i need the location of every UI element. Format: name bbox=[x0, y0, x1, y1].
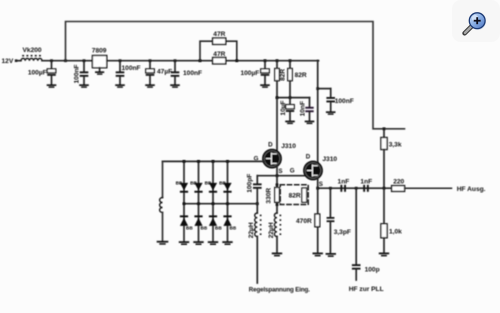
resistor R 1,0k bbox=[381, 188, 402, 252]
capacitor C 47uF electrolytic bbox=[146, 61, 172, 85]
ground (100nF #2) bbox=[115, 84, 125, 88]
svg-text:82R: 82R bbox=[295, 72, 307, 79]
capacitor C 100nF (fourth) bbox=[326, 89, 353, 112]
svg-text:330R: 330R bbox=[266, 188, 273, 204]
svg-text:D: D bbox=[306, 153, 311, 160]
wire decoupling node horizontal bbox=[277, 97, 310, 99]
capacitor C 100uF (input electrolytic) bbox=[28, 61, 56, 85]
wire JFET1 source down to S-node bbox=[276, 165, 278, 176]
capacitor C 100nF (rotated label) bbox=[73, 61, 88, 85]
node junction 100p/output bbox=[355, 187, 358, 190]
capacitor C 100pF (coupling, rotated label) bbox=[246, 174, 261, 204]
diode D varactor BB top 2 bbox=[190, 181, 203, 193]
node junction divider/top-bypass bbox=[383, 127, 386, 130]
resistor R 82R (left, drain feed) rotated label bbox=[275, 61, 287, 98]
node junction 3.3pF/output bbox=[329, 187, 332, 190]
ground (47uF) bbox=[145, 84, 155, 88]
svg-text:100nF: 100nF bbox=[73, 64, 80, 83]
diode D varactor BB top 1 bbox=[176, 181, 189, 193]
svg-text:1,0k: 1,0k bbox=[389, 228, 402, 235]
diode D varactor BB bottom 1 bbox=[180, 215, 193, 230]
svg-text:J310: J310 bbox=[281, 143, 296, 150]
svg-text:3,3pF: 3,3pF bbox=[334, 229, 351, 236]
capacitor C 10uF electrolytic (rotated label) bbox=[280, 98, 294, 121]
wire 12V to inductor bbox=[16, 60, 21, 62]
ground (100uF #2) bbox=[260, 84, 270, 88]
wire branch to 100nF4 bbox=[318, 88, 331, 90]
ground (10nF) bbox=[305, 121, 315, 125]
wire S-node horizontal (to gate of Q2 and 100pF) bbox=[257, 175, 306, 177]
resistor R 82R (right) bbox=[288, 61, 307, 98]
node junction 82R1/decoupling bbox=[276, 96, 279, 99]
node junction tuning line / 100pF bbox=[256, 202, 259, 205]
capacitor C 100p (to PLL) bbox=[352, 188, 380, 280]
node junction branch 4 / resonator top bbox=[226, 160, 229, 163]
ground (100nF #1) bbox=[79, 84, 89, 88]
svg-text:BB: BB bbox=[201, 226, 208, 231]
svg-text:100nF: 100nF bbox=[122, 65, 141, 72]
svg-text:100µF: 100µF bbox=[28, 70, 47, 77]
svg-text:100pF: 100pF bbox=[246, 174, 253, 193]
capacitor C 100nF (after 7809) bbox=[116, 61, 141, 85]
svg-text:220: 220 bbox=[393, 179, 404, 186]
ground (varactor branch 4) bbox=[222, 241, 232, 245]
diode D varactor BB bottom 4 bbox=[223, 215, 236, 230]
svg-text:470R: 470R bbox=[296, 218, 312, 225]
resistor R 47R (top of loop) bbox=[213, 31, 226, 44]
wire output to HF Ausg. bbox=[405, 187, 452, 189]
node junction branch 3 / resonator top bbox=[212, 160, 215, 163]
node junction rail/47uF bbox=[149, 59, 152, 62]
inductor Vk200 bbox=[21, 47, 42, 61]
svg-text:1nF: 1nF bbox=[338, 178, 350, 185]
svg-text:100nF: 100nF bbox=[335, 98, 354, 105]
diode D varactor BB top 4 bbox=[219, 181, 232, 193]
node junction rail/82R2 bbox=[289, 59, 292, 62]
resistor R 82R optional (dashed box) bbox=[280, 185, 308, 205]
regulator U 7809 bbox=[92, 47, 107, 71]
transistor Q2 J310 bbox=[290, 153, 338, 188]
ground (varactor branch 1) bbox=[179, 241, 189, 245]
node junction branch 3 / tuning line bbox=[212, 202, 215, 205]
ground (input 100uF) bbox=[47, 84, 57, 88]
svg-text:J310: J310 bbox=[322, 156, 337, 163]
ground (470R) bbox=[313, 253, 323, 257]
svg-text:100µF: 100µF bbox=[240, 70, 259, 77]
resistor R 330R (source bias, rotated label) bbox=[266, 176, 280, 213]
wire JFET2 source down to output line bbox=[317, 178, 319, 188]
node junction rail/100nF3 bbox=[174, 59, 177, 62]
node junction branch 2 / tuning line bbox=[197, 202, 200, 205]
node junction divider/output bbox=[383, 187, 386, 190]
wire varactor branch 4 bbox=[227, 161, 229, 241]
wire 47R parallel loop bbox=[200, 41, 237, 61]
node junction rail/47R loop left bbox=[199, 59, 202, 62]
capacitor C 3,3pF bbox=[327, 188, 351, 253]
svg-text:47µF: 47µF bbox=[157, 69, 172, 76]
inductor L 22uH (left, tuning feed) bbox=[248, 204, 262, 283]
wire V+ vertical to JFET2 drain bbox=[317, 61, 319, 163]
ground (1,0k) bbox=[379, 253, 389, 257]
svg-text:7809: 7809 bbox=[92, 47, 107, 54]
ground (varactor branch 3) bbox=[208, 241, 218, 245]
node junction rail/82R1 bbox=[276, 59, 279, 62]
svg-text:1nF: 1nF bbox=[360, 178, 372, 185]
svg-text:100nF: 100nF bbox=[183, 70, 202, 77]
wire main supply rail center bbox=[107, 60, 319, 62]
resistor R 470R bbox=[296, 188, 320, 252]
node junction source/output bbox=[316, 187, 319, 190]
svg-text:G: G bbox=[290, 168, 295, 175]
svg-text:100p: 100p bbox=[365, 266, 380, 273]
node junction branch 1 / tuning line bbox=[183, 202, 186, 205]
node junction branch 2 / resonator top bbox=[197, 160, 200, 163]
ground (100nF #3) bbox=[170, 84, 180, 88]
node junction rail/100nF2 bbox=[119, 59, 122, 62]
capacitor C 100uF (second electrolytic) bbox=[240, 61, 269, 85]
node junction branch 4 / tuning line bbox=[226, 202, 229, 205]
ground (7809) bbox=[95, 71, 104, 75]
ground (3,3pF) bbox=[326, 253, 336, 257]
wire varactor tuning line (middle) bbox=[184, 203, 257, 205]
node junction rail/100uF bbox=[50, 59, 53, 62]
svg-text:22µH: 22µH bbox=[248, 222, 255, 238]
node 12V input terminal bbox=[2, 58, 18, 65]
svg-text:S: S bbox=[278, 168, 282, 175]
resistor R 47R (on rail) bbox=[213, 51, 226, 64]
node junction 82R2/decoupling bbox=[289, 96, 292, 99]
capacitor C 10nF (rotated label) bbox=[299, 98, 313, 121]
capacitor C 100nF (third) bbox=[171, 61, 202, 85]
svg-text:47R: 47R bbox=[213, 31, 225, 38]
svg-text:HF Ausg.: HF Ausg. bbox=[457, 186, 486, 193]
icon magnifier (zoom button) bbox=[452, 0, 500, 42]
svg-text:3,3k: 3,3k bbox=[389, 141, 402, 148]
svg-text:82R: 82R bbox=[289, 193, 301, 200]
wire output line bbox=[318, 187, 392, 189]
inductor L 22uH (right, source) bbox=[268, 213, 281, 253]
wire varactor branch 1 bbox=[183, 161, 185, 241]
node junction rail/100nF bbox=[83, 59, 86, 62]
ground (resonator coil) bbox=[157, 241, 169, 245]
svg-text:BB: BB bbox=[230, 226, 237, 231]
svg-text:HF zur PLL: HF zur PLL bbox=[349, 286, 384, 293]
svg-text:D: D bbox=[268, 142, 273, 149]
wire resonator top (gate line) bbox=[163, 160, 265, 162]
resistor R 3,3k bbox=[381, 129, 402, 188]
wire varactor branch 2 bbox=[198, 161, 200, 241]
inductor L resonator coil bbox=[160, 161, 163, 240]
ground (22uH right) bbox=[272, 253, 282, 257]
svg-text:Vk200: Vk200 bbox=[23, 47, 42, 54]
svg-text:12V: 12V bbox=[2, 58, 14, 65]
ground (10uF) bbox=[285, 121, 295, 125]
node junction V+/100nF4 bbox=[316, 87, 319, 90]
ground (varactor branch 2) bbox=[193, 241, 203, 245]
node junction rail/47R loop right bbox=[235, 59, 238, 62]
resistor R 220 (output series) bbox=[392, 179, 405, 192]
diode D varactor BB bottom 2 bbox=[194, 215, 207, 230]
node junction branch 1 / resonator top bbox=[183, 160, 186, 163]
capacitor C 1nF (first series) bbox=[338, 178, 350, 191]
capacitor C 1nF (second series) bbox=[360, 178, 372, 191]
svg-text:BB: BB bbox=[186, 226, 193, 231]
ground (100nF #4) bbox=[326, 111, 336, 115]
wire JFET1 drain line bbox=[276, 98, 278, 152]
diode D varactor BB bottom 3 bbox=[209, 215, 222, 230]
node junction 330R top / dashed box bbox=[276, 183, 279, 186]
node junction rail/100uF2 bbox=[264, 59, 267, 62]
wire main supply rail left bbox=[42, 60, 92, 62]
svg-text:BB: BB bbox=[215, 226, 222, 231]
node junction 330R bottom / dashed box bbox=[276, 203, 279, 206]
svg-text:10nF: 10nF bbox=[299, 101, 306, 116]
svg-text:S: S bbox=[319, 181, 323, 188]
wire varactor branch 3 bbox=[212, 161, 214, 241]
diode D varactor BB top 3 bbox=[205, 181, 218, 193]
node junction rail/top bypass bbox=[64, 59, 67, 62]
node junction S-node bbox=[276, 174, 279, 177]
svg-text:47R: 47R bbox=[213, 51, 225, 58]
wire top bypass: up, across top, down to output divider bbox=[66, 22, 405, 129]
transistor Q1 J310 bbox=[254, 142, 297, 176]
svg-text:Regelspannung Eing.: Regelspannung Eing. bbox=[249, 287, 310, 294]
svg-text:82R: 82R bbox=[280, 69, 287, 81]
